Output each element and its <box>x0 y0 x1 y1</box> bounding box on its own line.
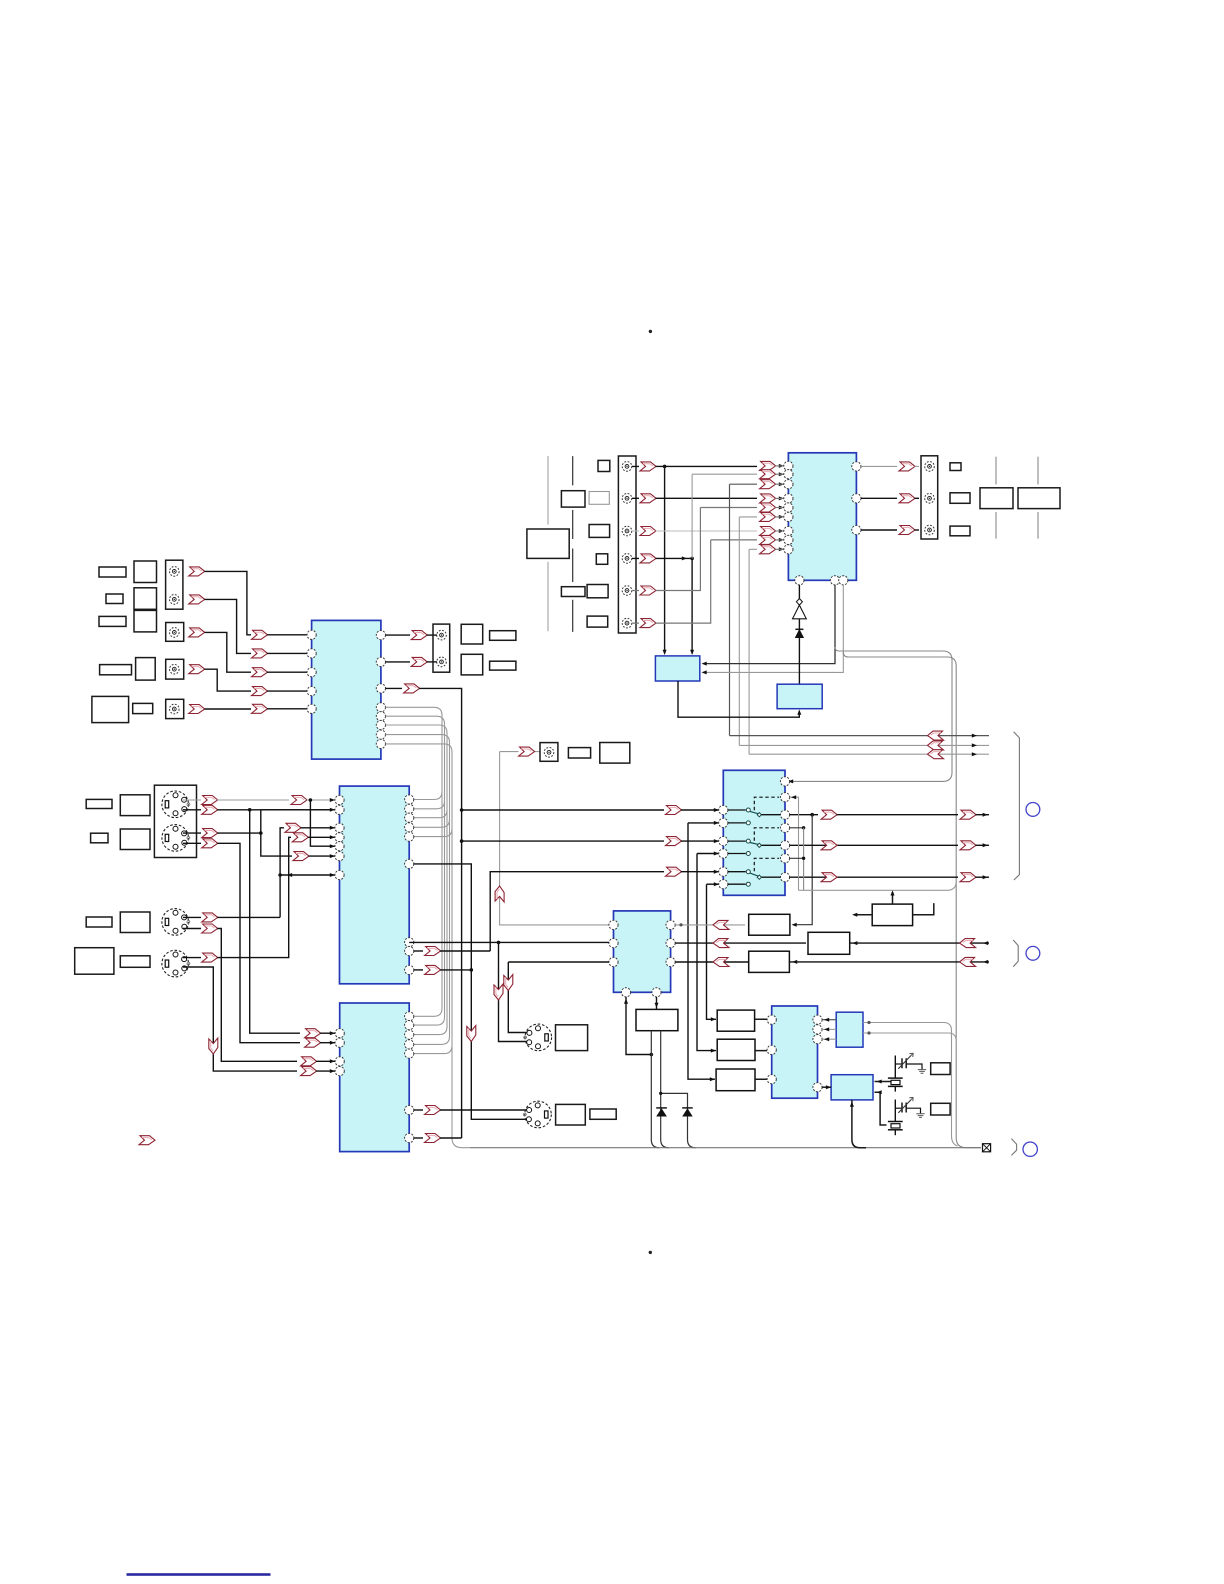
crop line d <box>995 457 997 539</box>
arrowhead into U4 pin r1 <box>788 779 793 783</box>
wire din2 top to riser <box>183 832 261 834</box>
chevron left row943 right <box>960 939 976 948</box>
wire jack5 to U2 pin5 <box>205 708 252 710</box>
feedback row 2 <box>739 744 989 746</box>
arrow U1 out1 <box>899 462 915 471</box>
IC U6 body <box>340 1003 410 1152</box>
label rect row1 <box>99 567 126 577</box>
U3 left pins <box>335 795 344 804</box>
label square din1 <box>120 795 150 816</box>
wire jack2 to U2 pin2 <box>205 599 252 653</box>
arrowhead into pin5 <box>330 844 335 848</box>
diode D3 <box>682 1107 693 1109</box>
switch group2 dashed guide <box>754 828 779 841</box>
gray bus line2 <box>386 716 445 1025</box>
U5 bottom pin2 wire <box>656 997 658 1010</box>
wire jack row3 gray to U1 pin7 <box>632 530 757 532</box>
branch row1 down to rectA <box>794 815 813 925</box>
jack box J4 <box>166 699 184 718</box>
chevron down riser 508 <box>504 975 513 991</box>
label rect j8a <box>568 748 590 758</box>
junction din2a <box>259 831 263 835</box>
U5 row2 wire left segment <box>409 941 609 943</box>
jack box J2 <box>166 623 184 642</box>
crystal circuit 1 <box>894 1056 896 1079</box>
arrow jack4 out <box>189 665 205 674</box>
U3 right pins <box>405 795 414 804</box>
label rect row2 <box>106 594 123 604</box>
row962 right of rectC <box>789 961 989 963</box>
switch group1 dashed guide <box>754 797 779 810</box>
arrow U2 in2 <box>252 649 268 658</box>
U5 right pins <box>666 920 675 929</box>
U1 out2 wire <box>861 497 897 499</box>
gray riser pin2 feedback <box>691 474 693 558</box>
IC U2 body <box>312 620 381 759</box>
R1 top lead <box>892 892 894 904</box>
label big rect t4 <box>527 529 569 558</box>
U5 out row1 gray <box>675 924 745 926</box>
wire din3 top riser to U3 pin3 <box>183 916 280 918</box>
jack J5a <box>437 630 447 640</box>
DIN jack CN4 <box>523 1101 551 1128</box>
block G body <box>836 1012 863 1047</box>
wires arrows to U6 pins <box>316 1033 335 1071</box>
rect A <box>749 914 790 935</box>
U6 right pins <box>405 1012 414 1021</box>
arrow din4 top <box>202 953 218 962</box>
riser U2out3 branch to U4 in1 <box>460 808 464 812</box>
IC U7 body <box>772 1006 818 1098</box>
wires rects to U7 <box>755 1019 767 1079</box>
wire riser to U4 in1 <box>462 809 664 811</box>
label square out1 <box>461 624 483 644</box>
arrow U2 in1 <box>252 630 268 639</box>
U3 pin 863 wire to riser 471 <box>414 864 527 1119</box>
arrowhead into rectA <box>792 923 797 927</box>
arrow U2 out2 <box>411 657 427 666</box>
vertical bus to U4 pin6 and rect1 <box>707 884 717 1019</box>
wire arrow1-pin1 <box>267 634 307 636</box>
label rect row5 <box>133 703 153 713</box>
U4 pin r6 drop <box>790 857 804 859</box>
IC U5 body <box>614 911 671 992</box>
IC U3 body <box>340 786 410 984</box>
G right wires to vertical B <box>863 1023 958 1147</box>
riser U6out row841 <box>462 840 664 842</box>
label rect j8b <box>600 743 630 764</box>
connector box J1 (jacks 1-2) <box>166 560 183 609</box>
label big rect din4 <box>75 948 114 975</box>
U7 left pins <box>767 1015 776 1024</box>
wire jack4 to U2 pin4 <box>205 669 252 691</box>
IC U4 body <box>723 770 785 895</box>
wire U2 pin3 out <box>386 687 403 689</box>
riser din3a up to pin3 <box>280 828 284 918</box>
mid rect bottom wires <box>651 1031 659 1148</box>
isolated arrow bottom-left <box>139 1136 155 1145</box>
rect F3 <box>716 1069 755 1091</box>
arrow din1 bottom <box>202 805 218 814</box>
wire jack1 to U2 pin1 <box>205 571 252 634</box>
U1 out3 wire <box>861 529 897 531</box>
label rect din2 <box>91 833 108 843</box>
row943 right of rectB <box>850 942 989 944</box>
arrowhead into B2 b <box>690 650 694 655</box>
output jack box J5 <box>433 624 450 672</box>
chevron left row 924 <box>713 920 729 929</box>
label square r1 <box>950 463 961 471</box>
DIN jack CN3 <box>524 1024 552 1051</box>
arrow din1 top <box>202 796 218 805</box>
gray bus line5 <box>386 744 471 1148</box>
label rect din1 <box>86 799 112 808</box>
label rect far1 <box>980 488 1013 509</box>
chevron left row3 <box>928 750 944 759</box>
arrow into jack <box>519 747 535 756</box>
R1 left lead <box>854 914 872 916</box>
DIN jack CN2a <box>162 909 190 936</box>
U1 right pins <box>852 462 861 471</box>
chevron left row2 <box>928 741 944 750</box>
riser x490 row871 <box>490 872 664 951</box>
arrowhead left on pin7 row <box>287 873 292 877</box>
arrowhead row3 <box>972 752 977 756</box>
arrow U3 in1 <box>291 796 307 805</box>
U6 left pins <box>335 1029 344 1038</box>
gray bus line1 <box>386 707 443 1016</box>
jack J1a <box>170 567 180 577</box>
junction din3a on pin7 row <box>278 873 282 877</box>
U1 bottom pins <box>795 576 804 585</box>
wire arrow3-pin3 <box>267 671 307 673</box>
wire jack3 to U2 pin3 <box>205 632 252 672</box>
label square row2 <box>134 588 157 610</box>
U2 right pins <box>376 631 385 640</box>
blue circle mid <box>1026 946 1040 960</box>
wire arrow2-pin2 <box>267 652 307 654</box>
label rect far2 <box>1018 488 1060 509</box>
B2 bottom wire to B3 <box>678 681 799 717</box>
brace bottom right <box>1011 1139 1016 1156</box>
label rect t9 <box>587 616 608 627</box>
U1 out1 gray wire <box>861 465 897 467</box>
label square row1 <box>134 561 157 583</box>
vertical bus to U4 pin4 and rect2 <box>697 854 716 1051</box>
junction row1 <box>663 465 667 469</box>
DIN connector box CN1 <box>154 785 196 857</box>
H right wires <box>875 1081 891 1083</box>
arrow jack2 out <box>189 595 205 604</box>
U7 right pins <box>813 1015 822 1024</box>
label rect x1 <box>931 1063 950 1075</box>
jacks J6 1-6 <box>622 462 632 472</box>
block H body <box>831 1075 873 1100</box>
wire din2 bottom riser <box>183 843 300 1042</box>
U4 out row3 <box>790 876 958 878</box>
crystal circuit 2 <box>894 1100 896 1122</box>
chevron down on din4 riser <box>209 1038 218 1054</box>
label rect r2 <box>950 493 970 504</box>
junction pin1 riser <box>309 798 313 802</box>
chevron down riser 471 <box>467 1026 476 1042</box>
arrow U2 in4 <box>252 687 268 696</box>
arrow U3 in3 <box>285 823 301 832</box>
vertical x803.6 <box>803 828 805 891</box>
page dot top <box>649 330 652 333</box>
arrow U4 in5 <box>666 867 682 876</box>
arrowhead into B2 right b <box>702 670 707 674</box>
arrow U2 out1 <box>411 631 427 640</box>
wire diode to B3 <box>798 638 800 685</box>
crop line e <box>1037 457 1039 539</box>
wire to jack out1 <box>427 634 437 636</box>
label rect cn4a <box>556 1104 586 1125</box>
jack J1b <box>170 595 180 605</box>
arrow jack3 out <box>189 628 205 637</box>
brace right top <box>1014 732 1020 880</box>
label rect r3 <box>950 526 970 536</box>
pin7 row <box>280 874 335 876</box>
U5 row2 wire right segment to rectB <box>675 942 806 944</box>
arrow U4 in3 <box>666 837 682 846</box>
wire riser to pin5 <box>700 507 757 509</box>
arrow U3 in6 <box>293 852 309 861</box>
mid rect under U5 <box>636 1009 678 1030</box>
diode D1 <box>795 628 803 630</box>
wires U7-G <box>822 1019 836 1021</box>
feedback riser pin3 <box>730 484 758 735</box>
U3 row969 to riser 471 <box>414 969 423 971</box>
wire U2 out1 <box>386 634 411 636</box>
wire U7 to H <box>822 1086 831 1088</box>
wire arrow5-pin5 <box>267 708 307 710</box>
feedback riser pin6 <box>739 517 757 746</box>
arrows U6 in <box>305 1029 321 1038</box>
DIN jack CN1a <box>162 791 190 818</box>
chevron left row 943 <box>713 939 729 948</box>
jack J4 <box>170 704 180 714</box>
arrowhead row2 <box>972 743 977 747</box>
blue circle bottom <box>1023 1142 1037 1156</box>
label square din3 <box>120 912 150 933</box>
label square din2 <box>120 829 150 850</box>
U4 right pins <box>780 777 789 786</box>
riser din1b down to U6 <box>250 810 300 1033</box>
U5 left pins <box>609 920 618 929</box>
label square t6 <box>596 554 607 565</box>
label rect t3 gray <box>589 492 609 505</box>
wire jack row2 to U1 pin4 <box>632 497 757 499</box>
jack box J3 <box>166 659 184 679</box>
U1 left pins <box>784 461 793 470</box>
wire U1 bottom pin2 down <box>704 585 835 664</box>
wire jack row6 to pin8 riser <box>632 540 711 623</box>
arrow din3 top <box>202 913 218 922</box>
terminator box <box>983 1144 991 1152</box>
label big rect row5 <box>92 696 129 722</box>
label square out2 <box>461 654 483 675</box>
input jack column box J6 <box>618 456 636 633</box>
U5 bottom pins <box>621 988 630 997</box>
riser row4 to B2 <box>691 558 693 653</box>
U4 left pins <box>719 805 728 814</box>
label rect cn4b <box>590 1109 616 1119</box>
block B3 body <box>777 684 822 709</box>
label rect cn3 <box>556 1025 588 1051</box>
wire jack row1 to U1 pin1 <box>632 465 757 467</box>
wire riser to pin2 <box>692 473 757 475</box>
wire din1 top gray to U3 pin1 <box>183 799 201 801</box>
jack J3 <box>170 664 180 674</box>
rect C <box>749 951 790 972</box>
buffer amp diamond <box>796 599 802 606</box>
buffer amp triangle <box>793 605 807 619</box>
label rect row4 <box>100 665 132 675</box>
junction row4 <box>690 557 694 561</box>
DIN jack CN1b <box>162 825 190 852</box>
U4 pin r4 drop <box>790 827 804 829</box>
chevron left row962 right <box>960 957 976 966</box>
jack J8 <box>544 748 554 758</box>
U5 bottom pin1 wire <box>626 997 651 1055</box>
gray row 890 to vertical B <box>799 881 957 890</box>
branch to long vertical A <box>790 647 952 781</box>
junction din1b riser <box>248 808 252 812</box>
label square row3 <box>134 610 157 632</box>
wire jack row5 to pin5 riser <box>632 508 700 591</box>
feedback row 3 <box>749 753 989 755</box>
switch group1 contacts <box>728 810 746 823</box>
label rect out2 <box>490 661 516 670</box>
wire din1 bottom to U3 pin2 <box>183 809 335 811</box>
block B2 body <box>655 656 699 681</box>
arrowheads into U3 pins <box>330 798 335 802</box>
arrow jack1 out <box>189 567 205 576</box>
label rect t7 <box>561 587 585 597</box>
junction row942 <box>497 941 501 945</box>
arrow jack5 out <box>189 705 205 714</box>
U4 out row2 <box>790 844 958 846</box>
row 961 to riser 508 to DIN5 upper pin <box>508 962 609 1033</box>
feedback row 1 <box>730 735 990 737</box>
output jack column J7 <box>921 456 938 539</box>
U4 out row1 <box>790 814 818 816</box>
footer blue line <box>127 1573 271 1576</box>
gray bus line4 <box>386 735 450 1045</box>
wire U2 out2 <box>386 661 411 663</box>
label rect t5 <box>589 525 610 538</box>
chevron up on riser <box>495 886 504 902</box>
vertical U1pin2 bus to U4 pin2 and rect3 <box>688 823 715 1079</box>
arrowhead row4 <box>682 556 687 560</box>
wire din4 top riser to U3 pin4 <box>183 837 291 957</box>
arrow stack U1 inputs <box>760 461 776 470</box>
feedback riser pin9 <box>749 549 757 754</box>
wire to jack out2 <box>427 661 437 663</box>
wire U2 out3 to bus <box>419 688 462 1138</box>
wire arrow4-pin4 <box>267 690 307 692</box>
wire U1 bottom pin1 down <box>798 585 800 599</box>
chevron down riser 498 <box>494 984 503 1000</box>
arrow U2 out3 <box>404 684 420 693</box>
label rect din3 <box>86 917 112 927</box>
arrow U4 in1 <box>666 806 682 815</box>
gray wire from jack down <box>500 752 610 925</box>
wire amp to diode <box>798 619 800 630</box>
wire U1 bottom pin3 down gray <box>704 585 843 673</box>
R1 right lead <box>913 903 934 915</box>
arrowhead row1 <box>972 734 977 738</box>
label rect t8 <box>587 585 608 598</box>
riser 498 to DIN5 lower pin <box>499 942 528 1041</box>
label rect x2 <box>931 1103 950 1115</box>
arrow din3 bottom <box>202 924 218 933</box>
DIN jack CN2b <box>162 950 190 977</box>
label square t1 <box>598 460 610 471</box>
jack J2 <box>170 628 180 638</box>
wire jack row4 to riser <box>632 557 692 559</box>
wire riser to pin8 <box>711 539 757 541</box>
blue circle top <box>1026 803 1040 817</box>
arrowhead into B2 a <box>663 650 667 655</box>
arrowheads into U3 right pins <box>387 798 392 802</box>
U4 pin r2 drop <box>790 797 799 890</box>
arrows J6 out <box>640 462 656 471</box>
U6 out row1110 <box>414 1109 423 1111</box>
brace right mid <box>1013 940 1018 967</box>
arrow U1 out2 <box>899 494 915 503</box>
arrow U2 in5 <box>252 704 268 713</box>
arrow U2 in3 <box>252 668 268 677</box>
switch group2 contacts <box>728 841 746 853</box>
IC U1 body <box>788 453 856 581</box>
page dot bottom <box>649 1251 652 1254</box>
label rect row3 <box>99 616 126 626</box>
arrowheads into U1 pins <box>779 464 784 468</box>
arrowhead into B2 right a <box>702 662 707 666</box>
wire arrow to pin1 <box>307 799 335 801</box>
crop line segment b <box>547 562 549 631</box>
bottom bus line <box>470 1147 981 1149</box>
riser pin2row-pin6row <box>261 810 292 856</box>
resistor block R1 <box>872 904 912 926</box>
jog to second diode <box>661 1093 696 1147</box>
crop line segment c <box>572 456 574 632</box>
switch group3 contacts <box>728 872 746 885</box>
chevron left row 962 <box>713 958 729 967</box>
U2 left pins <box>307 630 316 639</box>
U3 row951 to riser 490 <box>414 950 423 952</box>
diode D2 <box>656 1107 667 1109</box>
label rect out1 <box>490 631 516 641</box>
jack box J8 <box>540 743 558 762</box>
U6 out row1138 <box>414 1137 423 1139</box>
rect B <box>808 932 850 954</box>
wire din4 bottom riser <box>183 967 297 1071</box>
H bottom wire to bus <box>852 1100 866 1148</box>
gray bus line3 <box>386 725 448 1035</box>
arrow din2 bottom <box>202 839 218 848</box>
label square row4 <box>136 658 156 681</box>
arrowhead into B3 bottom <box>797 710 801 715</box>
arrow U3 in4 <box>292 833 308 842</box>
arrow U1 out3 <box>899 526 915 535</box>
drop row1 to B2 <box>664 466 666 653</box>
jack J5b <box>437 657 447 667</box>
crop line segment a <box>547 456 549 525</box>
wire din3 bottom riser <box>183 929 297 1062</box>
